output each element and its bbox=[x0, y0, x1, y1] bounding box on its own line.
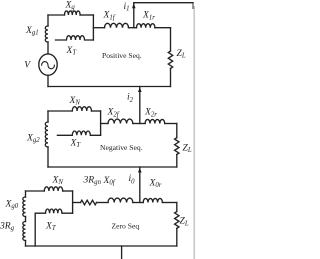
wire pos left vertical upper bbox=[47, 15, 49, 26]
wire zero left vertical upper bbox=[25, 191, 27, 197]
arrowhead i2 (up) bbox=[138, 87, 142, 92]
inductor X0f bbox=[108, 198, 133, 202]
svg-text:Zero Seq: Zero Seq bbox=[112, 222, 140, 231]
resistor ZL zero (vertical zigzag) bbox=[175, 212, 179, 229]
inductor X0r bbox=[143, 198, 162, 202]
wire zero bottom stub to edge bbox=[121, 246, 123, 259]
svg-text:Negative Seq.: Negative Seq. bbox=[100, 143, 143, 152]
wire X1f to i1 node bbox=[129, 27, 137, 29]
wire neg bottom rail bbox=[48, 166, 177, 168]
svg-text:Positive Seq.: Positive Seq. bbox=[102, 51, 142, 60]
wire neg left vertical lower bbox=[47, 147, 49, 167]
inductor XN (negative seq top branch) bbox=[72, 107, 91, 111]
inductor Xg (positive seq top branch) bbox=[65, 11, 81, 15]
wire zero box right vertical bbox=[72, 191, 74, 213]
faint scan edge line at right bbox=[193, 6, 195, 259]
wire X0f to i0 node to X0r bbox=[133, 202, 143, 204]
inductor XT (negative seq lower branch), free stub at left bbox=[57, 131, 100, 135]
wire i0 vertical between neg bottom and zero tap bbox=[139, 167, 141, 203]
resistor 3Rgn (horizontal zigzag) bbox=[81, 200, 97, 205]
wire i1 vertical stub bbox=[133, 3, 135, 28]
arrowhead i1 (up) bbox=[132, 3, 136, 8]
inductor XN (zero seq top branch) bbox=[44, 187, 62, 191]
inductor Xg1 (vertical, scallops left) bbox=[45, 26, 48, 42]
wire Xg1 to source bbox=[47, 42, 49, 54]
wire pos tap from box to X1f bbox=[93, 27, 104, 29]
inductor X1r bbox=[137, 24, 155, 28]
wire neg tap from box to X2f bbox=[101, 123, 108, 125]
wire zero top-left corner to XN0 bbox=[26, 190, 45, 192]
wire neg box right vertical bbox=[100, 111, 102, 135]
inductor Xg2 (vertical, scallops left) bbox=[45, 122, 48, 147]
wire X0r to right corner bbox=[162, 202, 176, 204]
inductor XT (positive seq lower branch), free stub at left bbox=[56, 36, 94, 40]
inductor X2r bbox=[145, 119, 165, 123]
wire pos top-left corner to Xg coil bbox=[48, 14, 65, 16]
wire X2f to i2 node to X2r bbox=[133, 123, 145, 125]
wire pos right vertical upper bbox=[170, 28, 172, 51]
inductor X2f bbox=[108, 119, 133, 123]
wire zero right vertical upper bbox=[176, 203, 178, 212]
wire neg top-left corner to XN bbox=[48, 110, 72, 112]
wire pos box right vertical bbox=[92, 15, 94, 40]
wire neg right vertical lower bbox=[176, 155, 178, 168]
wire zero bottom rail bbox=[26, 245, 177, 247]
inductor X1f bbox=[105, 23, 129, 27]
wire zero left vertical lower bbox=[25, 217, 27, 246]
wire neg left vertical upper bbox=[47, 111, 49, 122]
wire Xg to box right corner bbox=[80, 14, 93, 16]
wire X1r to right corner bbox=[155, 27, 171, 29]
wire zero tap from box to 3Rgn bbox=[73, 202, 81, 204]
wire pos right vertical lower bbox=[170, 68, 172, 86]
source V (circle with sine) bbox=[39, 54, 57, 75]
resistor ZL positive (vertical zigzag) bbox=[168, 51, 172, 68]
wire zero right vertical lower bbox=[176, 228, 178, 246]
wire XN to box right corner bbox=[92, 110, 101, 112]
wire source bottom to pos bottom rail bbox=[47, 75, 49, 86]
inductor Xg0 (vertical, scallops left) bbox=[23, 197, 26, 216]
inductor XT (zero seq lower branch with left L-drop) bbox=[35, 209, 72, 246]
arrowhead i0 (up) bbox=[138, 168, 142, 173]
wire XN0 to box right corner bbox=[63, 190, 73, 192]
resistor 3Rg (vertical, scallops left) bbox=[23, 222, 26, 241]
wire i2 vertical between pos bottom and neg tap bbox=[139, 87, 141, 124]
resistor ZL negative (vertical zigzag) bbox=[175, 138, 179, 155]
wire X2r to right corner bbox=[165, 123, 177, 125]
wire pos bottom rail bbox=[48, 86, 171, 88]
wire 3Rgn to X0f bbox=[97, 202, 109, 204]
wire top outer: fault bus from i1 node to right edge bbox=[134, 2, 193, 4]
wire neg right vertical upper bbox=[176, 124, 178, 138]
